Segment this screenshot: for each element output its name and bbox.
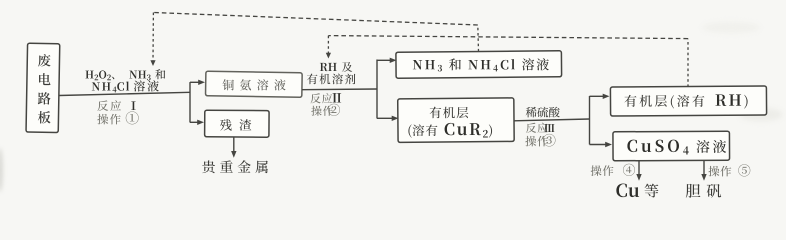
label: 铜氨溶液: [223, 79, 286, 90]
dashed wire: RH recycle up from organic-RH box top: [687, 39, 689, 87]
label: operation 3 操作③: [525, 134, 555, 147]
label: 有机层(溶有 RH): [624, 94, 747, 108]
dashed wire: inner recycle horizontal: [328, 36, 688, 39]
junction 1: split vertical: [189, 82, 191, 122]
junction 2: split vertical: [376, 60, 378, 119]
label: NH4Cl solution line 2: [92, 80, 159, 92]
arrow: into copper-ammonia box: [190, 81, 200, 83]
box: NH3 and NH4Cl solution: [396, 51, 562, 78]
box: organic layer with RH: [610, 86, 766, 116]
label: Cu etc: [616, 184, 658, 198]
box: copper ammonia solution 铜氨溶液: [206, 71, 303, 97]
arrow: CuSO4 down-left operation 4: [638, 161, 640, 176]
arrow: into CuSO4 solution box: [590, 144, 608, 146]
label: precious metals 贵重金属: [202, 160, 268, 173]
label: H2O2 NH3 reagent line 1: [85, 69, 165, 80]
dashed wire: NH3/NH4Cl recycle up from box top: [477, 25, 480, 52]
arrow: CuSO4 down-right operation 5: [703, 161, 705, 176]
junction 3: split vertical: [589, 96, 591, 145]
dashed arrow: recycle down to reaction I feed: [152, 13, 154, 61]
label: NH3 和 NH4Cl 溶液: [413, 58, 549, 71]
box: residue 残渣: [205, 110, 269, 137]
arrow: into NH3/NH4Cl solution box: [377, 59, 391, 61]
label: 废电路板 vertical text: [38, 54, 51, 123]
label: 有机层 line 1: [430, 107, 469, 119]
box: CuSO4 solution: [613, 131, 730, 161]
arrow: into residue box: [190, 121, 199, 123]
arrow: into organic layer RH box: [590, 95, 605, 97]
box: organic layer with CuR2: [398, 98, 514, 143]
dashed wire: outer recycle horizontal: [153, 13, 477, 26]
label: reaction II 反应 II: [310, 93, 341, 103]
label: RH and organic solvent: [320, 62, 352, 72]
label: operation 5 操作⑤: [708, 164, 750, 176]
box: waste circuit board 废电路板: [26, 43, 60, 132]
label: (溶有 CuR2) line 2: [408, 123, 492, 138]
label: operation 1 操作①: [97, 111, 138, 124]
label: CuSO4 溶液: [627, 140, 726, 155]
wire: main line copper-ammonia to junction 2: [302, 88, 377, 91]
arrow: residue down to precious metals: [233, 137, 235, 153]
wire: main line board to junction 1: [59, 92, 190, 95]
scan artifact: faint gray blots: [739, 108, 783, 121]
label: operation 2 操作②: [311, 104, 340, 116]
scan artifact: left edge smear: [0, 148, 3, 192]
label: dilute sulfuric acid 稀硫酸: [526, 107, 560, 118]
label: reaction I 反应 I: [97, 100, 135, 111]
wire: main line CuR2 layer to junction 3: [514, 119, 590, 121]
dashed arrow: recycle down to reaction II feed: [327, 36, 329, 53]
label: operation 4 操作④: [591, 164, 635, 176]
label: 残渣: [220, 119, 251, 131]
label: reaction III 反应 III: [526, 123, 554, 133]
arrow: into organic layer CuR2 box: [377, 117, 393, 119]
label: 胆矾: [686, 184, 721, 198]
